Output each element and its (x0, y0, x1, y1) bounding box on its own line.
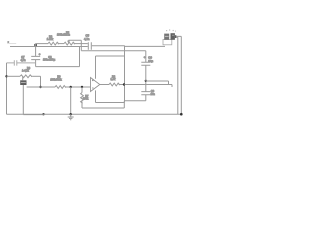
output line tick (171, 85, 173, 88)
wire R2 to node (119, 84, 125, 86)
wire vertical x=79.5 input tap (79, 47, 81, 67)
wire R6 to R5 (58, 43, 64, 45)
wire C9 node to speaker jog y=81 (146, 81, 169, 85)
wire R7 bottom y=108 (82, 101, 124, 108)
svg-text:1-10k: 1-10k (47, 38, 54, 41)
junction dot C9/C8 node (145, 80, 147, 82)
svg-text:10µ: 10µ (148, 59, 153, 63)
speaker grille specks (166, 29, 176, 31)
ground symbol (68, 114, 74, 120)
capacitor C7 (7, 60, 36, 65)
wire resistor chain start (36, 44, 48, 47)
loudspeaker LS frame (163, 40, 172, 45)
junction dot x=40.5 input line (39, 86, 41, 88)
svg-text:10n: 10n (151, 92, 156, 96)
microphone M1 (20, 80, 26, 85)
wire C6 bottom y=66.6 (36, 66, 80, 68)
junction dot C6 top (34, 44, 37, 47)
capacitor C6 electrolytic (31, 47, 40, 67)
junction dot battery return (180, 113, 183, 116)
wire ground tap vertical x=70.7 (70, 87, 72, 114)
svg-text:100k-500k: 100k-500k (50, 78, 62, 81)
resistor R2 internal (109, 83, 120, 86)
wire R5 to C5 (74, 43, 88, 45)
svg-text:4,7n: 4,7n (84, 37, 90, 41)
wire to R8 (7, 75, 21, 77)
mic stub to R8 line (22, 76, 24, 80)
wire C8 bottom y=100.8 (124, 100, 146, 102)
pot wiper bar wire (69, 40, 82, 50)
potentiometer R5 (64, 42, 75, 45)
speaker wire 2 (177, 36, 182, 114)
wire output line y=84.5 (125, 84, 173, 86)
svg-text:100k-1M lin: 100k-1M lin (57, 34, 71, 37)
wire R9 to op-amp (65, 86, 91, 88)
wire vertical x=40.5 (40, 76, 42, 87)
wire to speaker box (125, 45, 166, 47)
junction dot output node (123, 83, 125, 85)
wire input top left (10, 46, 88, 48)
wire vertical output x=124.5 (124, 46, 126, 103)
resistor R9 (55, 86, 66, 89)
svg-text:+: + (39, 52, 41, 56)
ground rail (7, 113, 182, 115)
speaker wire 1 (177, 37, 178, 114)
capacitor C9 electrolytic (141, 51, 150, 81)
svg-text:4,7n: 4,7n (21, 59, 26, 62)
mic ground stub (22, 85, 24, 115)
op-amp U1 triangle (91, 78, 100, 92)
svg-text:100n-100µ: 100n-100µ (43, 59, 56, 62)
junction dot R7 top (81, 86, 83, 88)
svg-text:1-4,7k: 1-4,7k (22, 69, 29, 72)
junction dot ground symbol (70, 113, 72, 115)
resistor R7 (81, 87, 84, 108)
resistor R8 (20, 75, 32, 78)
junction dot mic ground at rail (42, 113, 44, 115)
capacitor C5 (88, 42, 91, 50)
wire supply y=50.6 (81, 50, 146, 52)
wire left rail x=6.5 (6, 63, 8, 114)
wire input line y=87 (27, 86, 55, 88)
wire C5 to corner (92, 45, 125, 47)
wire R8 right (32, 75, 40, 77)
resistor R6 (48, 42, 59, 45)
junction dot left rail (5, 75, 7, 77)
IC box U1 (96, 56, 125, 103)
svg-text:1,5k: 1,5k (111, 78, 116, 81)
loudspeaker LS body (164, 33, 176, 40)
wire mic ground jog (23, 114, 43, 116)
capacitor C8 (141, 81, 150, 101)
pot wiper arrow (68, 40, 70, 42)
op-amp output wire (100, 84, 109, 86)
junction dot ground tap (70, 86, 72, 88)
svg-text:100k: 100k (83, 97, 89, 100)
